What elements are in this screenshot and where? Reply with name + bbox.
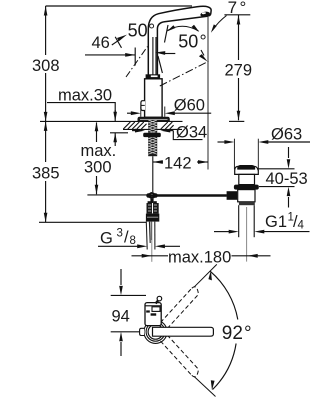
max.30 bottom ref line [110,132,128,134]
max.30 up arrow [113,133,117,143]
rod stub below ball [150,199,153,203]
dim 142 [153,160,163,164]
7deg ref line [224,14,250,16]
svg-text:50°: 50° [128,20,156,40]
deck top line [40,120,183,122]
385 bottom extension line [39,221,146,223]
max300 bottom ref line [87,194,146,196]
dim 308 line [45,6,47,121]
svg-text:Ø60: Ø60 [174,97,205,115]
dashed swung tube lower [161,335,199,377]
svg-text:4: 4 [298,220,305,232]
94 bottom ref line [111,331,140,333]
tailpipe [238,205,240,237]
bottom view body [145,303,161,326]
dim 308 arrows [44,6,48,16]
46 dim right arrow [155,51,165,55]
46 dim line left [85,54,135,56]
horizontal rod to drain [147,194,227,197]
dim O60: left arrow [127,112,131,114]
collar [146,74,161,79]
ball joint [146,193,157,197]
drain neck [239,174,255,184]
svg-text:279: 279 [225,62,253,80]
drain dome cap [235,166,259,174]
drain gray band [239,202,255,205]
dim 385 line [45,121,47,222]
bottom view spout tube [153,327,214,336]
aerator extension line [207,17,209,170]
dim max.180 [132,255,169,257]
svg-text:max.30: max.30 [58,86,112,104]
aerator [200,11,210,18]
G3/8 underline [98,245,138,247]
O34 leader + underline [173,131,202,140]
threaded shank [148,122,157,156]
svg-text:385: 385 [32,164,60,182]
50deg-1 tick line [115,37,121,48]
94 top ref line [111,294,146,296]
dim 279 [238,15,240,120]
riser inner line 1 [152,37,154,75]
svg-text:max.180: max.180 [168,249,231,267]
mounting wing nut [143,133,161,137]
drain flange (black) [234,185,259,190]
drain side block [227,191,238,200]
dim G1 1/4 [214,231,230,233]
deck hatch right [161,122,174,129]
svg-text:Ø34: Ø34 [176,123,207,141]
svg-text:142: 142 [164,155,192,173]
50deg-1 leader arrow [112,40,119,45]
faucet centerline lower [151,222,153,262]
50deg-2 small axis tick [165,25,169,43]
svg-text:Ø63: Ø63 [271,125,302,143]
handle tilted axis dash line [126,47,148,78]
dim O34: arrows [132,130,135,132]
46 extension line [134,48,136,66]
pull rod vertical [152,156,154,192]
308 top extension line [46,5,192,7]
drain centerline [246,207,248,262]
50deg-2 leader arrow [201,50,204,56]
svg-text:308: 308 [32,57,60,75]
svg-text:G1: G1 [265,213,287,231]
dim 94 arrows [120,269,122,285]
dim O63 [233,139,235,170]
swing axis extension upper [194,264,217,287]
svg-text:8: 8 [130,235,136,247]
max.30 down arrow [113,112,117,122]
spout outline [148,6,211,74]
G3/8 arrows [137,244,147,248]
svg-text:300: 300 [84,159,112,177]
bottom view swivel rings [144,320,167,343]
dim 40-53 [257,168,295,170]
supply hoses [146,222,155,250]
dim max.300 [96,123,98,195]
side pin [141,101,145,111]
body [145,79,163,118]
svg-text:/: / [124,229,129,247]
escutcheon base [138,117,169,121]
svg-text:92°: 92° [222,323,252,344]
left nub [140,328,144,335]
swing axis extension lower [194,376,216,396]
svg-text:94: 94 [112,307,130,325]
92 deg arc [210,271,238,319]
50deg-2 angle arc [168,26,199,31]
dome cap black top [237,165,255,170]
svg-text:46: 46 [92,34,110,52]
hose connector block [147,203,159,214]
svg-text:3: 3 [117,228,123,240]
riser inner line 2 [155,37,157,75]
dashed swung tube upper [161,287,199,329]
hose nut tops [148,201,151,203]
svg-text:50°: 50° [178,31,206,51]
dim O60: right arrow + underline [164,107,166,117]
drain body [238,190,255,202]
hose block lower band [146,214,159,222]
handle knob [156,300,159,304]
dim 385 arrows [44,121,48,130]
svg-text:40-53: 40-53 [266,170,308,188]
7deg arc [212,16,226,31]
handle steep tick [158,56,162,73]
max.30 leader [47,103,115,112]
svg-text:G: G [100,230,113,248]
deck hatch left [123,122,146,129]
svg-text:max.: max. [81,142,117,160]
279 deck ref line [229,120,244,122]
spout tilted axis dash line [160,61,209,86]
deck bottom line [123,128,182,130]
